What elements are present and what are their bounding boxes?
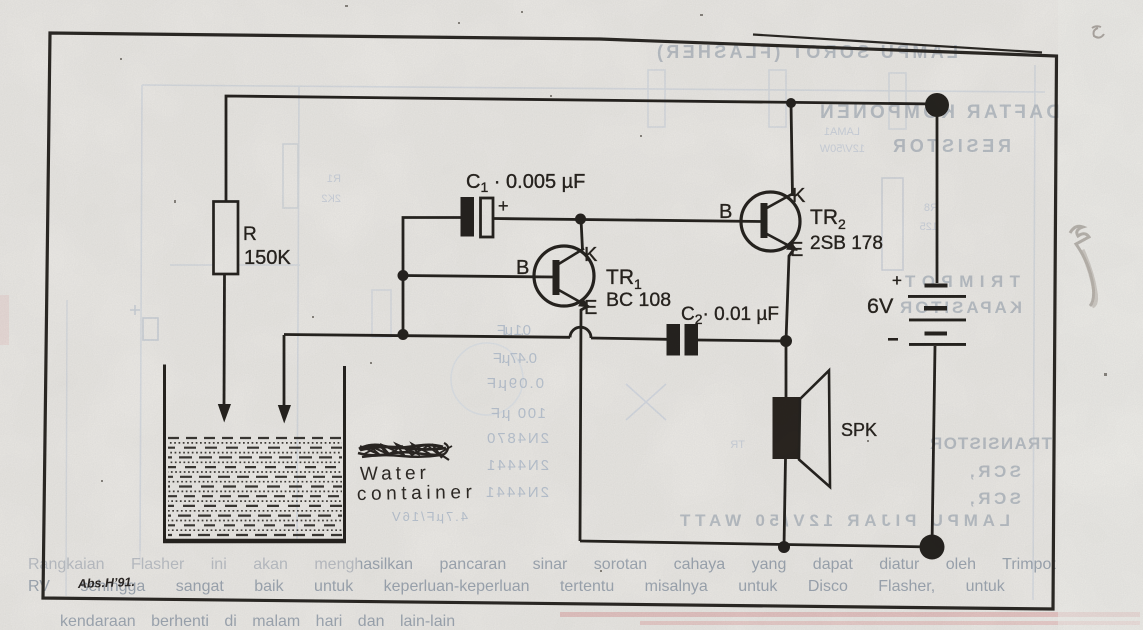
wire TR2 collector drop: [791, 103, 793, 196]
resistor R 150K: [214, 202, 239, 275]
handwritten label Water container: [357, 463, 477, 505]
junction node speaker / bottom rail: [778, 541, 790, 553]
wire bottom rail: [580, 541, 932, 547]
speaker SPK: [773, 397, 801, 459]
pen scratch in right margin: [1070, 26, 1104, 306]
scribbled-out text BAK AIR: [358, 443, 452, 460]
wire TR1 emitter down: [580, 306, 588, 541]
bleed-through mirrored component values: [392, 322, 549, 524]
wire R to probe 1: [223, 273, 226, 405]
wire C2 to emitter node: [698, 340, 786, 341]
bleed-through circuit outlines from reverse page: [130, 65, 1045, 600]
terminal node battery negative: [920, 535, 945, 560]
capacitor C2: [667, 324, 681, 356]
capacitor C1: [461, 197, 475, 237]
junction node TR1 base row: [398, 270, 409, 281]
terminal node battery positive: [925, 93, 949, 117]
bleed-through mirrored headings: [657, 42, 1060, 530]
wire top supply rail: [226, 96, 937, 202]
wire TR2 emitter down to speaker: [786, 249, 794, 398]
wire C1 to TR2 base: [493, 219, 762, 222]
junction node top rail / TR2 collector: [786, 98, 796, 108]
wire hop over TR1 emitter: [570, 327, 591, 338]
polarity label - battery: [888, 338, 898, 341]
water dashed fill: [168, 438, 342, 535]
junction node C2 / TR2 emitter: [780, 335, 792, 347]
battery 6V: [908, 284, 966, 346]
wire speaker to bottom rail: [784, 458, 786, 547]
wire probe row: [284, 335, 570, 338]
wire C1 input branch: [403, 218, 461, 336]
probe arrow 1: [218, 404, 231, 423]
transistor TR2: [719, 185, 883, 261]
wire battery positive drop: [936, 105, 939, 283]
transistor TR1: [516, 244, 671, 319]
caption paragraph line 1: [28, 556, 1056, 630]
pink marker smudges: [0, 295, 1140, 625]
bleed-through small labels: [321, 126, 938, 451]
junction node C1 / TR1 collector: [575, 214, 586, 225]
wire probe 2 drop: [283, 335, 286, 406]
wire TR1 base row: [403, 276, 554, 278]
wire battery negative drop: [932, 346, 935, 547]
wire hop to C2: [591, 338, 667, 339]
scan specks: [101, 5, 1107, 572]
junction node probe row: [398, 329, 409, 340]
water container tank: [163, 365, 346, 543]
wire TR1 collector drop: [581, 219, 583, 250]
probe arrow 2: [278, 405, 291, 424]
